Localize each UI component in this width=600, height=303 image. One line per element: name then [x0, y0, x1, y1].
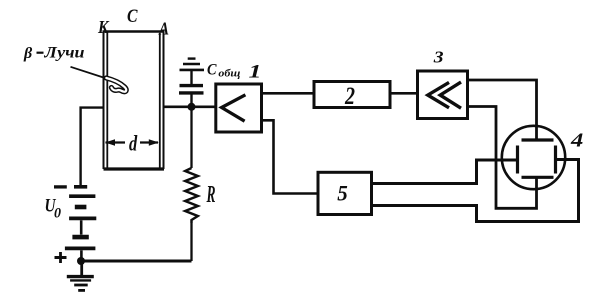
- svg-text:Лучи: Лучи: [43, 44, 84, 61]
- label minus: [54, 185, 67, 188]
- svg-text:C: C: [207, 61, 217, 78]
- wire block2 to block3: [390, 92, 418, 95]
- wire block5 top output to CRT left plate: [372, 160, 518, 184]
- wire block3 top output to CRT top plate: [468, 80, 537, 140]
- CRT tube 4 (circle): [502, 126, 565, 189]
- wire block1 to block2: [262, 92, 315, 95]
- block 2: [314, 82, 390, 108]
- label plus: [55, 252, 67, 263]
- svg-text:5: 5: [337, 180, 348, 205]
- junction dot at battery plus: [77, 257, 85, 265]
- wire block5 bottom output to CRT right plate: [372, 160, 579, 222]
- wire resistor bottom: [190, 223, 192, 261]
- svg-text:A: A: [158, 18, 169, 38]
- capacitor Cobsh stem lower: [190, 95, 192, 107]
- dimension d with arrows: [105, 130, 159, 155]
- bottom wire battery to resistor: [81, 260, 192, 263]
- CRT top deflection plate: [522, 138, 554, 141]
- svg-text:1: 1: [249, 61, 262, 82]
- wire A to block 1 input: [164, 106, 216, 109]
- wire block1 bottom output to block5: [262, 120, 319, 193]
- battery U0: [65, 187, 96, 261]
- svg-text:β: β: [23, 45, 33, 62]
- block 3: [418, 71, 468, 119]
- capacitor Cobsh plates: [179, 86, 204, 93]
- wire K to battery: [81, 108, 104, 186]
- anode plate A (right wall, double line): [160, 31, 164, 170]
- block 1 (amplifier): [216, 84, 262, 132]
- wire block3 bottom output to CRT bottom plate: [468, 107, 537, 209]
- svg-text:d: d: [129, 130, 138, 155]
- resistor R zigzag: [185, 168, 198, 223]
- amplifier < symbol in block 1: [222, 95, 246, 121]
- svg-text:2: 2: [344, 83, 355, 110]
- svg-text:K: K: [97, 17, 110, 37]
- svg-text:0: 0: [54, 204, 61, 221]
- svg-text:общ: общ: [218, 68, 240, 79]
- CRT bottom deflection plate: [522, 176, 554, 179]
- ground symbol above capacitor (inverted): [180, 59, 205, 70]
- wire node to resistor top: [190, 107, 192, 168]
- svg-text:3: 3: [433, 48, 445, 67]
- svg-text:C: C: [127, 6, 138, 27]
- ground symbol below battery: [67, 261, 94, 290]
- CRT left deflection plate: [516, 146, 519, 174]
- CRT right deflection plate: [554, 146, 557, 174]
- capacitor upper stem: [190, 71, 192, 85]
- double chevron symbol in block 3: [428, 82, 461, 108]
- svg-text:R: R: [206, 182, 216, 208]
- label Cobsh: [207, 61, 241, 79]
- cathode plate K (left wall, double line): [104, 31, 108, 170]
- node junction dot: [188, 103, 196, 111]
- ionization chamber C outline: [103, 32, 165, 170]
- svg-text:4: 4: [570, 130, 584, 152]
- label U0: [45, 195, 62, 221]
- beta ray pointer line: [71, 67, 107, 79]
- beta ray track (wavy comet in chamber): [106, 78, 126, 92]
- block 5: [318, 172, 372, 214]
